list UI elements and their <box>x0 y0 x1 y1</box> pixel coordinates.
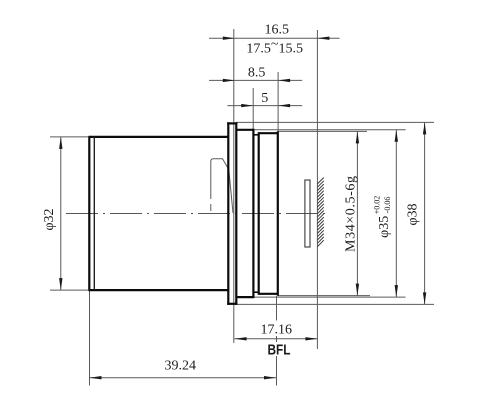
svg-text:BFL: BFL <box>268 342 291 359</box>
arrowheads <box>59 37 426 380</box>
dimension line phi32 <box>60 137 62 290</box>
extension line M34 bottom <box>278 295 370 297</box>
arrow phi38 top <box>423 122 426 134</box>
arrow 17.16 left <box>235 337 247 340</box>
lens element (glass) <box>305 180 310 247</box>
part outline: phi38 flange <box>227 122 237 305</box>
arrow M34 bottom <box>356 284 359 296</box>
extension line flange rear face (vertical, passes through flange) <box>233 29 235 343</box>
arrow 39.24 left <box>90 376 102 379</box>
svg-text:5: 5 <box>261 91 268 106</box>
dimension line M34 <box>356 131 358 295</box>
extension line thread relief start <box>252 88 254 130</box>
svg-text:39.24: 39.24 <box>165 359 197 374</box>
dimension line 17.16 BFL <box>234 338 317 340</box>
phantom internal lens cell outline <box>211 159 233 213</box>
extension line image plane / sensor <box>316 30 318 349</box>
svg-text:φ38: φ38 <box>405 203 420 225</box>
dimension line phi38 <box>424 122 426 304</box>
part outline: thread relief groove <box>253 135 258 292</box>
dimension line 39.24 <box>90 377 277 379</box>
extension line phi32 top <box>50 136 88 138</box>
phantom slant line in flange <box>229 169 233 213</box>
arrow phi32 bottom <box>59 278 62 290</box>
arrow 39.24 right <box>264 376 276 379</box>
part outline: M34 thread section <box>259 131 278 296</box>
svg-text:8.5: 8.5 <box>248 65 266 80</box>
dimension line 16.5 <box>209 37 340 39</box>
arrow M34 top <box>356 131 359 143</box>
arrow phi32 top <box>59 137 62 149</box>
arrow 8.5 right <box>278 79 290 82</box>
centerline (dash-dot axis) <box>66 213 329 215</box>
dimension line phi35 <box>395 130 397 297</box>
extension line rear face down <box>276 296 278 321</box>
part outline: phi35 seat section <box>236 129 253 298</box>
arrow 16.5 left <box>223 37 235 40</box>
arrow 5 right <box>278 104 290 107</box>
svg-text:φ35: φ35 <box>377 216 392 238</box>
arrow 17.16 right <box>305 337 317 340</box>
part outline: phi32 barrel <box>89 136 228 291</box>
wire: thin extension and dimension lines <box>50 29 434 386</box>
svg-text:17.5~15.5: 17.5~15.5 <box>246 37 303 57</box>
hatching: image plane <box>317 178 323 247</box>
svg-text:+0.02: +0.02 <box>373 196 382 215</box>
extension line barrel front face down <box>89 291 91 386</box>
arrow phi35 top <box>395 130 398 142</box>
arrow 16.5 right <box>317 37 329 40</box>
svg-text:16.5: 16.5 <box>264 23 289 38</box>
dimension line 5 <box>227 105 302 107</box>
extension line phi38 bottom <box>236 303 434 305</box>
arrow 5 left <box>241 104 253 107</box>
phantom hidden dashes <box>210 192 212 213</box>
svg-text:M34×0.5-6g: M34×0.5-6g <box>344 175 359 252</box>
extension line phi35 top <box>253 129 405 131</box>
extension line phi35 bottom <box>253 296 405 298</box>
barrel inner chamfer line <box>93 137 95 290</box>
extension line rear face up <box>277 72 279 131</box>
extension line phi38 top <box>236 121 434 123</box>
svg-text:-0.06: -0.06 <box>383 197 392 214</box>
arrow phi35 bottom <box>395 285 398 297</box>
extension line phi32 bottom <box>50 289 88 291</box>
extension line M34 top <box>278 130 367 132</box>
svg-text:φ32: φ32 <box>42 208 57 230</box>
arrow phi38 bottom <box>423 292 426 304</box>
arrow 8.5 left <box>223 79 235 82</box>
svg-text:17.16: 17.16 <box>260 323 292 338</box>
dimension line 8.5 <box>209 79 302 81</box>
